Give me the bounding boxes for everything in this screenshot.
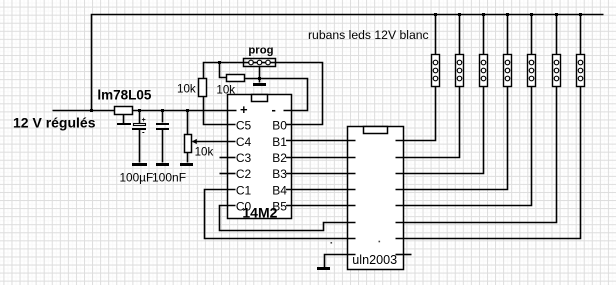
svg-text:+: + [240,102,248,117]
svg-text:prog: prog [248,45,273,57]
svg-text:B0: B0 [272,119,287,133]
ground bar: 100uF [132,163,147,166]
wire: pin C3 stub [220,157,236,159]
wire: 100nF top lead [162,111,164,123]
wire: prog left pin to R1 top [204,63,244,79]
wire: B2 to ULN input 2 [286,157,356,159]
IC U2 14M2 body [228,95,292,219]
wire: B3 to ULN input 3 [286,173,356,175]
junction dot: strip 4 [506,13,509,16]
wire: ULN output 7 to strip 7 [396,87,581,239]
wire: junction to R2 left [220,63,227,78]
wire: strip 7 top lead [580,15,582,55]
LED strip 3 [480,55,488,87]
wire: strip 2 top lead [459,15,461,55]
svg-text:10k: 10k [195,146,214,159]
svg-text:C5: C5 [236,119,252,133]
svg-text:B3: B3 [272,167,287,181]
wire: ULN output 5 to strip 5 [396,87,532,206]
LED strip 6 [553,55,561,87]
svg-text:12 V régulés: 12 V régulés [13,115,96,131]
svg-text:100µF: 100µF [120,170,154,184]
LED strip 4 [504,55,512,87]
capacitor C2 100nF plate bottom [156,128,169,130]
LED strip 1 [432,55,440,87]
wire: pin C1 to ULN input 7 [205,190,356,239]
LED strip 5 [528,55,536,87]
stray speck left of uln2003 [331,242,333,244]
wire: through prog connector [244,62,276,64]
wire: ULN output 6 to strip 6 [396,87,557,223]
wire: pot bottom lead [187,153,189,163]
svg-text:lm78L05: lm78L05 [97,87,152,102]
svg-text:-: - [142,127,145,136]
IC U2 14M2 notch [252,95,268,102]
junction dot: strip 5 [530,13,533,16]
wire: 12V top distribution rail [92,15,604,111]
wire: prog middle pin to ground [259,67,261,83]
potentiometer R3 wiper arrow [192,139,197,144]
svg-text:B1: B1 [272,135,287,149]
resistor R2 10k (horizontal, serial in) [227,75,245,82]
ground bar: ULN2003 [317,267,330,270]
resistor R1 10k (vertical, serial in) [199,79,207,97]
potentiometer R3 10k body [185,135,192,153]
wire: 100nF bottom lead [162,130,164,163]
junction dot: top rail / left riser [90,109,93,112]
svg-text:uln2003: uln2003 [352,253,397,267]
wire: ULN output 3 to strip 3 [396,87,484,174]
junction dot: strip 6 [555,13,558,16]
wire: B5 to ULN input 5 [286,205,356,207]
svg-text:-: - [272,102,276,117]
wire: strip 4 top lead [507,15,509,55]
junction dot: 100nF on rail [161,109,164,112]
wire: rail from 12V input to regulator [53,110,115,112]
wire: pin C2 stub [220,173,236,175]
connector J1 pin 2 circle [257,60,262,65]
wire: B1 to ULN input 1 [286,140,356,142]
capacitor C1 100uF positive plate (hollow) [134,124,146,126]
svg-text:B4: B4 [272,183,287,197]
wire: strip 3 top lead [483,15,485,55]
regulator U1 lm78L05 body [115,107,133,115]
wire: prog right pin to B0 serial out [276,63,323,125]
svg-text:C4: C4 [236,135,252,149]
wire: 100uF top lead [139,111,141,124]
IC U3 uln2003 notch [364,127,388,134]
ground bar: 100nF [156,163,169,166]
wire: ULN output 1 to strip 1 [396,87,436,141]
ground bar: prog connector [253,83,266,86]
wire: ULN output 4 to strip 4 [396,87,508,190]
IC U3 uln2003 body [348,127,404,270]
svg-text:10k: 10k [216,83,235,96]
junction dot: strip 2 [458,13,461,16]
svg-text:B2: B2 [272,151,287,165]
LED strip 2 [456,55,464,87]
svg-text:100nF: 100nF [152,170,186,184]
svg-text:rubans leds 12V blanc: rubans leds 12V blanc [308,28,429,42]
ground bar: potentiometer [180,163,193,166]
svg-text:+: + [142,117,146,124]
wire: R1 bottom to pin C5 [204,96,236,125]
connector J1 prog body [244,59,276,67]
capacitor C2 100nF plate top [156,123,169,125]
wire: rail from regulator to 14M2 plus pin [133,110,237,112]
capacitor C1 100uF negative plate [132,128,146,130]
junction dot: pot on rail [186,109,189,112]
connector J1 pin 3 circle [266,60,271,65]
wire: pot top lead [187,111,189,135]
wire: strip 6 top lead [556,15,558,55]
svg-text:C1: C1 [236,183,252,197]
wire: ULN COM pin stub [396,254,412,256]
wire: strip 5 top lead [531,15,533,55]
svg-text:14M2: 14M2 [242,205,277,221]
LED strip 7 [577,55,585,87]
stray speck inside uln2003 [379,241,381,243]
wire: B4 to ULN input 4 [286,189,356,191]
wire: regulator ground pin drop [123,115,125,124]
svg-text:C2: C2 [236,167,252,181]
wire: pin C0 to ULN input 6 [220,206,356,231]
junction dot: strip 1 [434,13,437,16]
junction dot: strip 7 [579,13,582,16]
junction dot: serial divider node [218,61,221,64]
junction dot: prog ground node [258,77,261,80]
wire: 100uF bottom lead [139,130,141,163]
junction dot: strip 3 [482,13,485,16]
wire: R2 right to minus pin of 14M2 [245,79,308,111]
svg-text:C3: C3 [236,151,252,165]
wire: ULN output 2 to strip 2 [396,87,460,158]
ground bar: regulator [117,123,131,125]
connector J1 pin 1 circle [249,60,254,65]
wire: pot wiper to pin C4 [193,141,236,143]
junction dot: 100uF on rail [138,109,141,112]
wire: strip 1 top lead [435,15,437,55]
wire: ULN ground pin to ground bar [325,255,356,268]
svg-text:10k: 10k [177,83,196,96]
